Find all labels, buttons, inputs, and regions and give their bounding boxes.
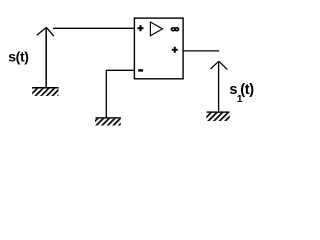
ground (left) (32, 87, 58, 96)
op-amp - input label (138, 69, 143, 71)
svg-text:(t): (t) (240, 82, 254, 98)
op-amp triangle symbol (150, 22, 162, 36)
wire: output (183, 50, 219, 52)
ground (right) (206, 111, 230, 121)
op-amp + input label (138, 25, 144, 31)
wire: - input to ground (106, 70, 134, 118)
svg-text:s(t): s(t) (8, 49, 28, 65)
ground (middle) (95, 117, 121, 125)
source arrow s(t) (37, 27, 54, 87)
op-amp + output label (172, 47, 178, 53)
wire: source to + input (53, 27, 135, 29)
op-amp U1 box (134, 18, 183, 79)
infinity gain symbol (171, 28, 178, 31)
output voltage arrow s1(t) (211, 61, 228, 111)
